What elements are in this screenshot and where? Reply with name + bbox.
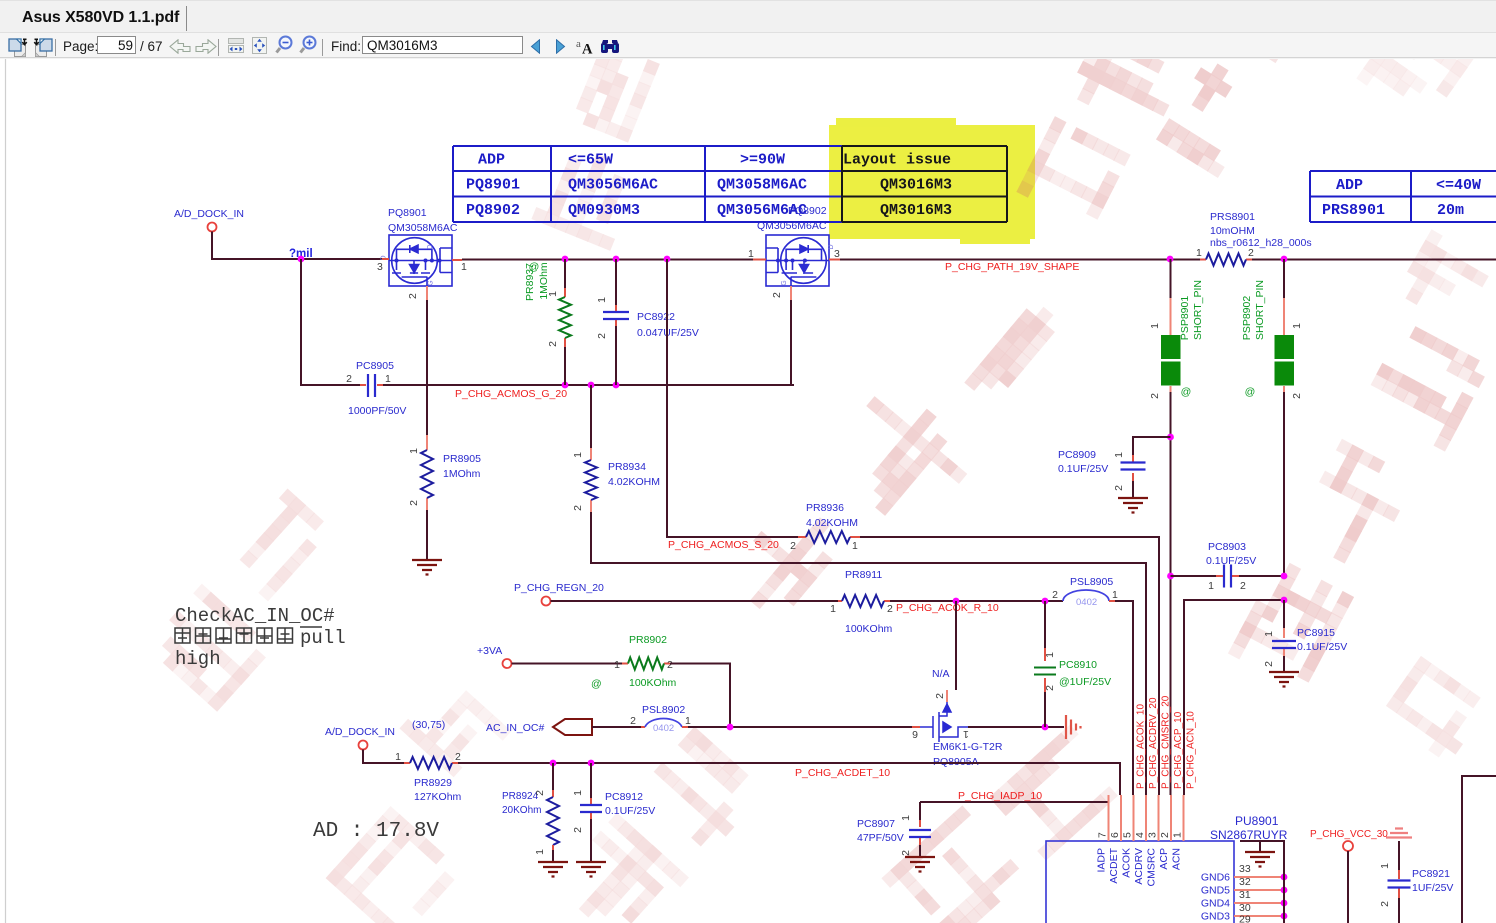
resistor PR8924 20KOhm xyxy=(552,763,554,790)
icon: find previous xyxy=(529,39,543,54)
svg-text:N/A: N/A xyxy=(932,668,950,680)
svg-text:@: @ xyxy=(529,261,540,273)
junction xyxy=(1167,256,1174,263)
svg-text:P_CHG_CMSRC_20: P_CHG_CMSRC_20 xyxy=(1161,695,1172,789)
svg-text:pull: pull xyxy=(300,627,346,649)
svg-text:D: D xyxy=(427,244,434,249)
svg-text:5: 5 xyxy=(1122,832,1134,838)
wire ACMOS_S drop xyxy=(667,259,798,537)
wire EM6K1 source to ground xyxy=(968,726,1064,728)
svg-text:ACOK: ACOK xyxy=(1121,848,1133,878)
svg-text:2: 2 xyxy=(407,293,419,299)
svg-text:AD : 17.8V: AD : 17.8V xyxy=(313,820,439,843)
junction xyxy=(727,724,734,731)
yellow highlighter annotation xyxy=(829,118,1035,244)
svg-text:1: 1 xyxy=(534,849,546,855)
svg-text:IADP: IADP xyxy=(1096,848,1108,873)
svg-text:1: 1 xyxy=(385,373,391,385)
svg-text:AC_IN_OC#: AC_IN_OC# xyxy=(486,722,545,734)
wire IC gnd bus xyxy=(1240,841,1284,923)
svg-text:P_CHG_ACOK_R_10: P_CHG_ACOK_R_10 xyxy=(896,602,999,614)
svg-text:ACN: ACN xyxy=(1171,848,1183,870)
svg-text:2: 2 xyxy=(790,540,796,552)
junction xyxy=(550,760,557,767)
svg-text:PR8902: PR8902 xyxy=(629,634,667,646)
svg-text:2: 2 xyxy=(455,751,461,763)
svg-text:1: 1 xyxy=(596,297,608,303)
svg-text:QM3016M3: QM3016M3 xyxy=(880,202,952,219)
svg-text:G: G xyxy=(781,280,788,285)
IC right-side GND pins xyxy=(1234,876,1284,878)
capacitor PC8922 0.047UF/25V xyxy=(615,259,617,305)
svg-text:P_CHG_REGN_20: P_CHG_REGN_20 xyxy=(514,582,604,594)
wire IADP xyxy=(920,801,1108,803)
svg-text:2: 2 xyxy=(596,333,608,339)
wire port to PSL8902 xyxy=(592,726,641,728)
transistor EM6K1-G-T2R PQ8905A xyxy=(920,702,968,742)
table: part comparison (blue section) xyxy=(453,146,842,222)
svg-text:G: G xyxy=(428,280,435,285)
svg-text:0.1UF/25V: 0.1UF/25V xyxy=(605,805,655,817)
capacitor PC8921 1UF/25V xyxy=(1398,841,1400,870)
svg-text:GND3: GND3 xyxy=(1201,911,1230,923)
watermark band bottom-left xyxy=(326,806,463,923)
svg-text:PQ8901: PQ8901 xyxy=(388,207,427,219)
document tab title xyxy=(22,9,179,27)
svg-text:QM3058M6AC: QM3058M6AC xyxy=(717,177,807,194)
svg-text:20m: 20m xyxy=(1437,202,1464,219)
svg-text:4: 4 xyxy=(1134,832,1146,838)
svg-text:<=65W: <=65W xyxy=(568,152,613,169)
junction xyxy=(1281,913,1288,920)
svg-text:2: 2 xyxy=(408,500,420,506)
ground xyxy=(1245,852,1275,867)
svg-text:1: 1 xyxy=(614,659,620,671)
svg-text:2: 2 xyxy=(1240,580,1246,592)
svg-text:P_CHG_ACMOS_G_20: P_CHG_ACMOS_G_20 xyxy=(455,388,567,400)
svg-text:PC8909: PC8909 xyxy=(1058,449,1096,461)
junction xyxy=(588,760,595,767)
svg-text:20KOhm: 20KOhm xyxy=(502,805,541,816)
wire PSL8902 to EM6K1 gate xyxy=(688,726,912,728)
svg-text:PSL8905: PSL8905 xyxy=(1070,576,1113,588)
svg-text:29: 29 xyxy=(1239,914,1251,923)
wire PR8936 to CMSRC run xyxy=(860,537,1159,795)
svg-text:QM0930M3: QM0930M3 xyxy=(568,202,640,219)
svg-text:PC8905: PC8905 xyxy=(356,360,394,372)
wire PR8934 to ACDRV run xyxy=(591,512,1146,795)
resistor PR8937 1MOhm (green, vertical) xyxy=(564,259,566,288)
svg-text:P_CHG_ACN_10: P_CHG_ACN_10 xyxy=(1186,711,1197,789)
svg-text:3: 3 xyxy=(377,261,383,273)
svg-text:PR8936: PR8936 xyxy=(806,502,844,514)
svg-text:ADP: ADP xyxy=(1336,177,1363,194)
capacitor PC8907 47PF/50V xyxy=(919,820,921,845)
wire from A/D_DOCK_IN terminal xyxy=(212,232,382,260)
svg-text:PR8905: PR8905 xyxy=(443,453,481,465)
junction xyxy=(664,256,671,263)
svg-text:127KOhm: 127KOhm xyxy=(414,791,462,803)
svg-text:PSP8902: PSP8902 xyxy=(1241,296,1253,341)
wire to PR8929 xyxy=(363,750,404,764)
note chinese line (drawn glyphs) + pull xyxy=(175,628,190,643)
svg-text:1: 1 xyxy=(900,815,912,821)
svg-text:2: 2 xyxy=(1291,393,1303,399)
svg-text:SHORT_PIN: SHORT_PIN xyxy=(1192,280,1204,340)
component box (clipped, bottom-right) xyxy=(1462,776,1496,923)
svg-text:3: 3 xyxy=(834,248,840,260)
svg-text:1UF/25V: 1UF/25V xyxy=(1412,882,1453,894)
svg-text:1: 1 xyxy=(1379,863,1391,869)
junction xyxy=(1042,598,1049,605)
svg-text:PSL8902: PSL8902 xyxy=(642,704,685,716)
icon: import page xyxy=(32,38,53,58)
svg-text:A/D_DOCK_IN: A/D_DOCK_IN xyxy=(325,726,395,738)
svg-text:30: 30 xyxy=(1239,902,1251,914)
resistor PR8905 1MOhm xyxy=(426,385,428,435)
watermark band bottom-center xyxy=(552,726,767,923)
svg-text:P_CHG_ACP_10: P_CHG_ACP_10 xyxy=(1173,711,1184,789)
svg-text:4.02KOHM: 4.02KOHM xyxy=(806,517,858,529)
watermark fragment right-edge xyxy=(1379,656,1490,765)
svg-text:0402: 0402 xyxy=(1076,597,1097,608)
junction xyxy=(298,256,305,263)
watermark band top-center xyxy=(531,41,682,251)
svg-text:GND4: GND4 xyxy=(1201,898,1230,910)
wire PSP8901 to ACP run + PC8909 tap xyxy=(1170,437,1172,795)
svg-text:2: 2 xyxy=(1113,485,1125,491)
svg-text:(30,75): (30,75) xyxy=(412,719,445,731)
svg-text:P_CHG_ACOK_10: P_CHG_ACOK_10 xyxy=(1136,704,1147,789)
watermark fragment below right table xyxy=(1395,229,1495,329)
junction xyxy=(613,382,620,389)
svg-text:GND6: GND6 xyxy=(1201,872,1230,884)
svg-text:0402: 0402 xyxy=(653,723,674,734)
wire top rail PQ8902 to PRS8901 xyxy=(840,259,1200,261)
svg-text:ADP: ADP xyxy=(478,152,505,169)
svg-text:QM3016M3: QM3016M3 xyxy=(880,177,952,194)
icon: zoom in xyxy=(299,35,317,54)
svg-text:PQ8901: PQ8901 xyxy=(466,177,520,194)
svg-text:2: 2 xyxy=(572,505,584,511)
svg-text:PQ8902: PQ8902 xyxy=(788,205,827,217)
svg-text:PU8901: PU8901 xyxy=(1235,814,1279,828)
svg-text:2: 2 xyxy=(667,659,673,671)
svg-text:3: 3 xyxy=(1147,832,1159,838)
capacitor PC8909 0.1UF/25V xyxy=(1132,455,1134,481)
svg-text:1: 1 xyxy=(685,715,691,727)
capacitor PC8912 0.1UF/25V xyxy=(590,763,592,798)
svg-text:1: 1 xyxy=(748,248,754,260)
svg-text:a: a xyxy=(576,38,581,50)
svg-text:1: 1 xyxy=(408,448,420,454)
svg-text:PQ8902: PQ8902 xyxy=(466,202,520,219)
junction xyxy=(1281,887,1288,894)
wire PR8911 to PSL8905 xyxy=(890,600,1063,602)
svg-text:2: 2 xyxy=(1379,901,1391,907)
transistor PQ8901 QM3058M6AC (P-ch MOSFET pair) xyxy=(389,235,452,286)
svg-text:4.02KOHM: 4.02KOHM xyxy=(608,476,660,488)
capacitor PC8910 (green, N/A) xyxy=(1044,601,1046,648)
svg-text:2: 2 xyxy=(1159,832,1171,838)
ground xyxy=(1118,498,1148,513)
wire +3VA to PR8902 xyxy=(512,663,623,665)
svg-text:A/D_DOCK_IN: A/D_DOCK_IN xyxy=(174,208,244,220)
svg-text:P_CHG_VCC_30: P_CHG_VCC_30 xyxy=(1310,829,1388,840)
svg-text:PC8912: PC8912 xyxy=(605,791,643,803)
capacitor PC8915 0.1UF/25V xyxy=(1283,600,1285,628)
wire ACDET rail xyxy=(458,763,1120,795)
watermark band center xyxy=(722,261,1081,656)
svg-text:1: 1 xyxy=(1291,323,1303,329)
svg-text:2: 2 xyxy=(346,373,352,385)
wire PC8905 to PQ8902 gate xyxy=(383,384,794,386)
svg-text:QM3056M6AC: QM3056M6AC xyxy=(568,177,658,194)
svg-text:1: 1 xyxy=(461,261,467,273)
svg-text:0.1UF/25V: 0.1UF/25V xyxy=(1297,641,1347,653)
ground xyxy=(576,862,606,877)
svg-text:P_CHG_ACDRV_20: P_CHG_ACDRV_20 xyxy=(1148,697,1159,789)
watermark band right-middle xyxy=(1228,320,1491,698)
svg-text:2: 2 xyxy=(1263,661,1275,667)
svg-text:1000PF/50V: 1000PF/50V xyxy=(348,405,406,417)
short-pin PSP8902 xyxy=(1283,259,1285,298)
svg-text:1: 1 xyxy=(830,603,836,615)
svg-text:0.1UF/25V: 0.1UF/25V xyxy=(1058,463,1108,475)
svg-text:QM3056M6AC: QM3056M6AC xyxy=(757,220,827,232)
svg-text:2: 2 xyxy=(547,341,559,347)
svg-text:PC8910: PC8910 xyxy=(1059,659,1097,671)
junction xyxy=(1042,724,1049,731)
svg-text:nbs_r0612_h28_000s: nbs_r0612_h28_000s xyxy=(1210,237,1312,249)
junction xyxy=(1167,434,1174,441)
wire REGN to PR8911 xyxy=(551,600,839,602)
svg-text:PR8929: PR8929 xyxy=(414,777,452,789)
icon: fit page xyxy=(252,37,267,54)
wire PQ8901 gate down to G rail xyxy=(426,300,428,385)
svg-text:ACDRV: ACDRV xyxy=(1133,848,1145,885)
svg-text:7: 7 xyxy=(1097,832,1109,838)
ground xyxy=(1269,672,1299,687)
table: Layout issue column (black on yellow) xyxy=(842,146,1007,222)
svg-text:A: A xyxy=(582,42,593,56)
svg-text:ACP: ACP xyxy=(1158,848,1170,870)
svg-text:2: 2 xyxy=(1248,247,1254,259)
svg-text:32: 32 xyxy=(1239,876,1251,888)
junction xyxy=(1167,573,1174,580)
IC PU8901 SN2867RUYR xyxy=(1046,841,1234,923)
svg-text:PR8934: PR8934 xyxy=(608,461,646,473)
IC pin stubs (top) xyxy=(1109,795,1184,841)
wire PSL8905 to ACOK pin run xyxy=(1115,601,1133,795)
svg-text:1: 1 xyxy=(1208,580,1214,592)
wire ACOK_R down to EM6K1 xyxy=(955,601,957,690)
svg-text:1: 1 xyxy=(852,540,858,552)
junction xyxy=(588,382,595,389)
svg-text:1MOhm: 1MOhm xyxy=(443,468,481,480)
svg-text:SN2867RUYR: SN2867RUYR xyxy=(1210,828,1288,842)
junction xyxy=(562,256,569,263)
svg-text:31: 31 xyxy=(1239,889,1251,901)
wire ACN run xyxy=(1184,600,1284,795)
svg-text:@: @ xyxy=(1181,386,1192,398)
svg-text:1: 1 xyxy=(395,751,401,763)
resistor PR8934 4.02KOHM xyxy=(590,385,592,448)
wire gate rail (P_CHG_ACMOS_G_20) xyxy=(301,259,360,385)
svg-text:<=40W: <=40W xyxy=(1436,177,1481,194)
svg-text:47PF/50V: 47PF/50V xyxy=(857,832,904,844)
svg-text:PC8921: PC8921 xyxy=(1412,868,1450,880)
svg-text:PRS8901: PRS8901 xyxy=(1322,202,1385,219)
svg-text:EM6K1-G-T2R: EM6K1-G-T2R xyxy=(933,741,1003,753)
page left border xyxy=(5,59,7,923)
svg-text:2: 2 xyxy=(1052,589,1058,601)
svg-text:10mOHM: 10mOHM xyxy=(1210,225,1255,237)
svg-text:PC8903: PC8903 xyxy=(1208,541,1246,553)
wire PR8902 down to AC_IN_OC# rail xyxy=(670,664,730,728)
svg-text:PC8922: PC8922 xyxy=(637,311,675,323)
svg-text:1: 1 xyxy=(1172,832,1184,838)
svg-text:PC8907: PC8907 xyxy=(857,818,895,830)
transistor PQ8902 QM3056M6AC (mirrored MOSFET pair) xyxy=(766,235,829,286)
watermark fragment far corner xyxy=(1356,9,1474,127)
svg-text:1: 1 xyxy=(963,728,969,740)
svg-text:P_CHG_ACMOS_S_20: P_CHG_ACMOS_S_20 xyxy=(668,539,779,551)
svg-text:2: 2 xyxy=(900,850,912,856)
svg-text:GND5: GND5 xyxy=(1201,885,1230,897)
svg-text:PSP8901: PSP8901 xyxy=(1179,296,1191,341)
svg-text:2: 2 xyxy=(887,603,893,615)
svg-text:1: 1 xyxy=(1263,631,1275,637)
svg-text:Layout issue: Layout issue xyxy=(843,152,951,169)
svg-text:high: high xyxy=(175,648,221,670)
svg-text:2: 2 xyxy=(771,292,783,298)
watermark patch mid-left-lower xyxy=(399,674,511,785)
svg-text:2: 2 xyxy=(534,790,546,796)
watermark band upper-middle-right xyxy=(1016,7,1196,235)
svg-text:PR8911: PR8911 xyxy=(845,569,882,581)
watermark band top-right xyxy=(1156,0,1347,184)
power symbol (red) xyxy=(1386,829,1412,838)
ground xyxy=(905,857,935,872)
svg-text:6: 6 xyxy=(1109,832,1121,838)
svg-text:1: 1 xyxy=(1112,589,1118,601)
junction xyxy=(1281,900,1288,907)
wire PQ8902 gate down to G rail corner xyxy=(791,300,794,385)
table: PRS8901 spec xyxy=(1310,171,1496,222)
icon: back arrow xyxy=(169,39,191,54)
wire top rail PQ8901 to PQ8902 xyxy=(462,259,758,261)
svg-text:@: @ xyxy=(591,678,602,690)
icon: match case aA xyxy=(575,38,595,55)
svg-text:1: 1 xyxy=(1044,652,1056,658)
icon: zoom out xyxy=(275,35,293,54)
svg-text:2: 2 xyxy=(572,827,584,833)
junction xyxy=(613,256,620,263)
svg-text:100KOhm: 100KOhm xyxy=(629,677,677,689)
icon: forward arrow xyxy=(195,39,217,54)
svg-text:33: 33 xyxy=(1239,863,1251,875)
svg-text:+3VA: +3VA xyxy=(477,645,502,657)
svg-text:ACDET: ACDET xyxy=(1108,847,1120,883)
svg-text:100KOhm: 100KOhm xyxy=(845,623,893,635)
svg-text:QM3058M6AC: QM3058M6AC xyxy=(388,222,458,234)
svg-text:P_CHG_PATH_19V_SHAPE: P_CHG_PATH_19V_SHAPE xyxy=(945,261,1079,273)
ground (rotated, red) xyxy=(1066,715,1081,739)
pin stubs PQ8901 xyxy=(382,258,389,260)
svg-text:9: 9 xyxy=(912,729,918,741)
icon: find next xyxy=(553,39,567,54)
icon: fit width xyxy=(228,38,244,53)
junction xyxy=(1281,573,1288,580)
svg-text:@1UF/25V: @1UF/25V xyxy=(1059,676,1111,688)
svg-text:2: 2 xyxy=(1044,685,1056,691)
wire VCC down xyxy=(1347,851,1349,923)
ground xyxy=(538,862,568,877)
svg-text:2: 2 xyxy=(1149,393,1161,399)
ground xyxy=(412,560,442,575)
watermark band bottom-right xyxy=(881,716,1126,923)
junction xyxy=(953,598,960,605)
svg-text:SHORT_PIN: SHORT_PIN xyxy=(1254,280,1266,340)
svg-text:PC8915: PC8915 xyxy=(1297,627,1335,639)
svg-text:1: 1 xyxy=(547,291,559,297)
svg-text:1: 1 xyxy=(572,452,584,458)
svg-text:2: 2 xyxy=(934,693,946,699)
icon: export page xyxy=(8,38,29,58)
short-pin PSP8901 xyxy=(1170,259,1172,298)
svg-text:P_CHG_ACDET_10: P_CHG_ACDET_10 xyxy=(795,767,890,779)
svg-text:P_CHG_IADP_10: P_CHG_IADP_10 xyxy=(958,790,1042,802)
svg-text:@: @ xyxy=(1245,386,1256,398)
svg-text:1: 1 xyxy=(572,790,584,796)
junction xyxy=(1281,597,1288,604)
junction xyxy=(1281,256,1288,263)
junction xyxy=(562,382,569,389)
svg-text:1: 1 xyxy=(1149,323,1161,329)
svg-text:1: 1 xyxy=(1113,452,1125,458)
pin stubs PQ8902 xyxy=(753,259,766,261)
svg-text:1: 1 xyxy=(1196,247,1202,259)
svg-text:PRS8901: PRS8901 xyxy=(1210,211,1255,223)
watermark band left-lower xyxy=(145,489,360,712)
icon: binoculars find xyxy=(600,38,620,54)
junction xyxy=(1281,874,1288,881)
wire top rail PRS8901 to right edge xyxy=(1252,259,1496,261)
svg-text:CheckAC_IN_OC#: CheckAC_IN_OC# xyxy=(175,605,335,627)
svg-text:>=90W: >=90W xyxy=(740,152,785,169)
svg-text:CMSRC: CMSRC xyxy=(1146,848,1158,887)
svg-text:2: 2 xyxy=(630,715,636,727)
